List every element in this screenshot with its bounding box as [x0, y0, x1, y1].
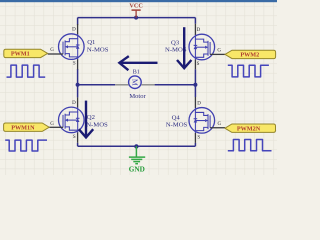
wire right bus lower	[194, 85, 196, 97]
port PWM1N	[4, 123, 50, 131]
svg-text:D: D	[72, 28, 76, 33]
wire motor left	[78, 84, 116, 86]
transistor Q2	[59, 107, 85, 133]
svg-text:D: D	[197, 101, 201, 106]
ground GND	[129, 146, 145, 164]
junction VCC node	[134, 16, 138, 20]
pin Q4 source	[194, 133, 196, 143]
junction left motor node	[76, 83, 80, 87]
svg-text:Q2: Q2	[87, 114, 95, 121]
wire Q3 source to motor junction	[194, 69, 196, 85]
wire bottom rail GND	[78, 145, 196, 147]
svg-text:S: S	[197, 62, 200, 67]
port PWM2	[225, 50, 276, 58]
junction right motor node	[193, 83, 197, 87]
transistor Q3 (mirrored)	[189, 34, 215, 60]
svg-text:G: G	[218, 122, 222, 127]
svg-text:N-MOS: N-MOS	[87, 47, 109, 54]
top window bar	[0, 0, 277, 2]
pin Q1 drain	[77, 24, 79, 34]
wire left bus upper	[77, 18, 79, 25]
svg-text:D: D	[197, 28, 201, 33]
svg-text:Q3: Q3	[171, 39, 180, 46]
pin motor left (gray)	[115, 84, 128, 86]
waveform PWM1	[7, 65, 46, 77]
svg-text:PWM2N: PWM2N	[237, 125, 261, 132]
svg-text:D: D	[72, 101, 76, 106]
pin motor right (gray)	[141, 84, 154, 86]
port PWM1	[4, 49, 48, 57]
motor B1	[129, 76, 142, 89]
pin Q1 gate	[48, 53, 63, 55]
junction GND node	[134, 144, 138, 148]
svg-text:PWM1N: PWM1N	[11, 124, 35, 131]
svg-text:Motor: Motor	[129, 93, 146, 100]
pin Q4 drain	[194, 97, 196, 108]
pin Q2 drain	[77, 97, 79, 107]
transistor Q1	[59, 34, 85, 60]
waveform PWM2N	[228, 140, 272, 151]
current arrow at Q3 (pointing down)	[177, 27, 191, 68]
svg-text:S: S	[73, 135, 76, 140]
svg-text:M: M	[130, 79, 139, 86]
waveform PWM1N	[5, 140, 47, 151]
svg-text:G: G	[50, 122, 54, 127]
svg-text:G: G	[50, 48, 54, 53]
wire Q4 source to bottom rail	[194, 143, 196, 146]
svg-text:N-MOS: N-MOS	[166, 121, 188, 128]
power port VCC	[132, 10, 141, 18]
wire Q2 source to bottom rail	[77, 143, 79, 146]
pin Q2 gate	[49, 126, 63, 128]
svg-text:PWM2: PWM2	[240, 52, 259, 59]
wire Q1 source to motor junction	[77, 69, 79, 85]
svg-text:S: S	[197, 135, 200, 140]
wire right bus upper	[194, 18, 196, 24]
pin Q3 drain	[194, 24, 196, 35]
pin Q2 source	[77, 133, 79, 143]
svg-text:PWM1: PWM1	[11, 51, 30, 58]
svg-text:G: G	[217, 49, 221, 54]
wire left bus lower	[77, 85, 79, 98]
transistor Q4 (mirrored)	[189, 108, 215, 134]
current arrow over motor (pointing left)	[119, 56, 157, 70]
svg-text:Q1: Q1	[87, 39, 95, 46]
wire top rail VCC	[78, 17, 196, 19]
port PWM2N	[225, 124, 276, 132]
current arrow at Q2 (pointing down)	[79, 101, 93, 138]
wire motor right	[155, 84, 196, 86]
svg-text:GND: GND	[129, 166, 145, 174]
svg-text:S: S	[73, 62, 76, 67]
waveform PWM2	[228, 65, 269, 77]
pin Q4 gate	[210, 127, 225, 129]
svg-text:N-MOS: N-MOS	[86, 121, 108, 128]
pin Q3 source	[194, 60, 196, 70]
pin Q1 source	[77, 59, 79, 69]
svg-text:VCC: VCC	[129, 3, 142, 10]
pin Q3 gate	[210, 53, 225, 55]
svg-text:B1: B1	[133, 70, 140, 76]
